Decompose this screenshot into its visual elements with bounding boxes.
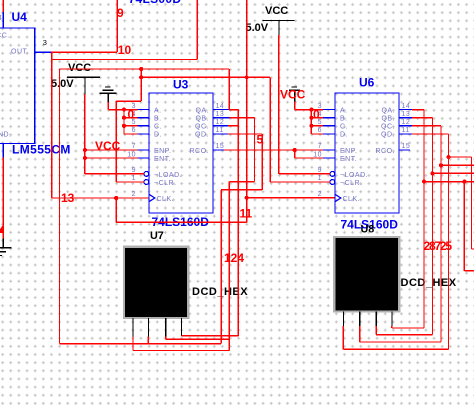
svg-text:~CLR.: ~CLR. xyxy=(154,180,177,187)
wire horizontal y=173.9 x 278.9-330 xyxy=(279,173,330,175)
svg-text:1: 1 xyxy=(318,175,322,182)
svg-text:OUT.: OUT. xyxy=(11,49,29,56)
wire horizontal y=59.5 x 51.6-197.2 xyxy=(52,59,198,61)
junction dot (84.9,158) xyxy=(83,156,87,160)
wire vertical x=294.7 y 101.7-109.6 xyxy=(294,102,296,110)
pin stub xyxy=(323,133,335,135)
svg-text:ENT.: ENT. xyxy=(154,156,171,163)
svg-text:7: 7 xyxy=(318,143,322,150)
black lead xyxy=(67,76,100,78)
svg-text:~LOAD.: ~LOAD. xyxy=(154,172,182,179)
wire vertical x=197.2 y 0-59.5 xyxy=(196,0,198,60)
wire horizontal y=222.4 x 116.2-246.7 xyxy=(116,221,247,223)
black lead xyxy=(375,312,377,327)
junction dot (311.4,117.7) xyxy=(309,116,313,120)
junction dot (311.4,125.8) xyxy=(309,124,313,128)
wire horizontal y=198 x 51.6-148.5 xyxy=(52,197,149,199)
pin stub xyxy=(323,109,335,111)
wire vertical x=262.2 y 134-189.9 xyxy=(261,134,263,190)
black lead xyxy=(263,20,295,22)
wire horizontal y=270.8 x 464.4-474 xyxy=(464,270,474,272)
wire net to U3 ~CLR xyxy=(116,69,144,182)
display U7 DCD_HEX xyxy=(124,230,248,318)
black lead xyxy=(289,89,300,91)
junction dot (464.4,181.6) xyxy=(462,180,466,184)
svg-text:2: 2 xyxy=(132,191,136,198)
U6 ~LOAD pin circle xyxy=(330,172,335,177)
pin stub xyxy=(138,149,150,151)
net number labels (red) xyxy=(61,6,452,265)
black lead xyxy=(391,312,393,327)
wire horizontal y=181.6 x 424-474 xyxy=(424,181,474,183)
U3 ~CLR pin circle xyxy=(144,180,149,185)
U8 display pins xyxy=(343,312,392,327)
black lead xyxy=(84,77,86,94)
svg-text:12: 12 xyxy=(402,119,411,126)
U4 pin 4 top stub xyxy=(0,0,3,28)
junction dot (311.4,109.6) xyxy=(309,108,313,112)
svg-text:13: 13 xyxy=(61,191,75,205)
svg-text:U8: U8 xyxy=(361,223,375,235)
power VCC 5.0V symbol (top middle) xyxy=(246,5,295,35)
U7 display pins xyxy=(133,318,182,337)
svg-text:9: 9 xyxy=(318,167,322,174)
wire horizontal y=343.7 x 59.5-221.2 xyxy=(60,343,222,345)
black lead xyxy=(278,21,280,36)
U3 pin names xyxy=(154,107,209,203)
U4 pin 3 OUT stub xyxy=(35,38,52,52)
pin stub xyxy=(138,133,150,135)
svg-text:ENT.: ENT. xyxy=(340,156,357,163)
wire horizontal y=125.8 x 311.4-323.2 xyxy=(311,125,323,127)
black lead xyxy=(100,92,117,94)
wire vertical x=114.4 y 0-51.5 xyxy=(116,0,118,52)
svg-text:11: 11 xyxy=(216,127,224,134)
svg-text:7: 7 xyxy=(132,143,136,150)
ground symbol (inverted, above U3) xyxy=(100,87,117,102)
wire horizontal y=109.6 x 229.1-238.3 xyxy=(229,109,238,111)
junction dot (124,109.6) xyxy=(122,108,126,112)
svg-text:VCC: VCC xyxy=(68,62,91,74)
svg-text:D.: D. xyxy=(340,132,348,139)
wire horizontal y=173.4 x 432.5-474 xyxy=(433,172,474,174)
wire net 13: U4 OUT across and down xyxy=(52,0,335,222)
wire horizontal y=101.2 x 116.2-141.2 xyxy=(116,100,141,102)
svg-text:U4: U4 xyxy=(12,10,28,24)
U6 left pin stubs xyxy=(323,110,335,158)
svg-text:A.: A. xyxy=(154,107,162,114)
svg-text:124: 124 xyxy=(224,251,244,265)
wire horizontal y=117.7 x 124-137.5 xyxy=(124,117,138,119)
svg-text:15: 15 xyxy=(216,143,225,150)
wire vertical x=229.1 y 69-109.6 xyxy=(228,69,230,110)
wire horizontal y=158 x 84.9-137.5 xyxy=(85,157,138,159)
svg-text:U6: U6 xyxy=(359,76,375,90)
wire vertical x=221.2 y 189.9-343.7 xyxy=(220,190,222,344)
svg-text:14: 14 xyxy=(402,103,411,110)
U6 right pin stubs xyxy=(399,110,412,150)
junction dot (246.7,197.7) xyxy=(245,196,249,200)
junction dot (141.2,69) xyxy=(139,67,143,71)
pin stub xyxy=(323,157,335,159)
svg-text:D.: D. xyxy=(154,132,162,139)
svg-text:ENP.: ENP. xyxy=(154,148,171,155)
pin stub xyxy=(323,125,335,127)
wire vertical x=359.6 y 326-342 xyxy=(359,326,361,342)
wire vertical x=59.5 y 69-343.7 xyxy=(59,69,61,344)
svg-text:5: 5 xyxy=(257,133,264,147)
svg-text:QB.: QB. xyxy=(195,116,209,123)
pin stub xyxy=(399,133,412,135)
wire vertical x=229.4 y 181.7-350.5 xyxy=(228,182,230,351)
wire vertical x=270.2 y 77.3-182 xyxy=(269,77,271,182)
svg-text:RCO.: RCO. xyxy=(376,148,396,155)
black lead xyxy=(103,89,114,91)
wire vertical x=141.2 y 69-101.2 xyxy=(140,69,142,101)
svg-text:ENP.: ENP. xyxy=(340,148,357,155)
wire ground net to U3 A B C D xyxy=(108,102,137,134)
pin stub xyxy=(399,109,412,111)
svg-text:10: 10 xyxy=(118,43,132,57)
svg-text:CLK.: CLK. xyxy=(157,196,175,203)
wire horizontal y=165.3 x 441-474 xyxy=(441,164,474,166)
svg-text:15: 15 xyxy=(402,143,411,150)
pin stub xyxy=(399,125,412,127)
svg-text:10: 10 xyxy=(313,151,322,158)
junction dot (424,181.6) xyxy=(422,180,426,184)
wire horizontal y=134 x 228-262.2 xyxy=(228,133,262,135)
wire horizontal y=134 x 311.4-323.2 xyxy=(311,133,323,135)
svg-text:28725: 28725 xyxy=(424,239,453,253)
wire horizontal y=117.7 x 412-432.5 xyxy=(412,117,433,119)
wire net RCO U3 to U6 ENP ENT xyxy=(224,150,323,158)
U6 pin numbers xyxy=(313,103,410,198)
display U8 DCD_HEX xyxy=(334,223,456,311)
wire VCC label net to U6 A B C D xyxy=(295,102,324,134)
wire horizontal y=173.9 x 84.9-144 xyxy=(85,173,144,175)
timer U4 LM555CM box (partially off-canvas) xyxy=(0,10,71,157)
wire horizontal y=335.8 x 181.5-238.3 xyxy=(182,335,239,337)
svg-text:QC.: QC. xyxy=(195,124,209,131)
wire horizontal y=150 x 84.9-137.5 xyxy=(85,149,138,151)
wire horizontal y=157 x 448.5-471.5 xyxy=(449,156,472,158)
wire horizontal y=77.3 x 141.2-270.2 xyxy=(141,76,270,78)
svg-text:U3: U3 xyxy=(173,78,189,92)
svg-text:VCC: VCC xyxy=(265,5,288,17)
wire vertical x=343.4 y 326-349.3 xyxy=(342,326,344,349)
wire vertical x=254.5 y 117.7-181.7 xyxy=(254,118,256,182)
black lead xyxy=(147,318,149,337)
wire vertical x=165.8 y 336.6-339.4 xyxy=(165,337,167,340)
power VCC 5.0V symbol (left, near U4) xyxy=(51,62,100,94)
pin stub xyxy=(323,149,335,151)
wire vertical x=116.2 y 198-222.4 xyxy=(115,198,117,222)
wire vertical x=116.2 y 101.2-182 xyxy=(115,101,117,182)
wire net QA U3 loop xyxy=(60,69,331,344)
junction dot (448.5,157) xyxy=(446,155,450,159)
wire vertical x=391.9 y 326-328 xyxy=(391,326,393,328)
svg-text:9: 9 xyxy=(117,6,124,20)
svg-text:QA.: QA. xyxy=(381,107,395,114)
wire horizontal y=328 x 391.9-424 xyxy=(392,327,424,329)
svg-text:1: 1 xyxy=(132,175,136,182)
black lead xyxy=(0,254,2,256)
svg-text:B.: B. xyxy=(340,116,348,123)
wire vertical x=2.6 y 0-12 xyxy=(2,0,4,12)
pin stub xyxy=(2,12,4,28)
wire vertical x=246.7 y 0-222.4 xyxy=(246,0,248,222)
pin stub xyxy=(213,109,230,111)
svg-text:VCC.: VCC. xyxy=(0,33,10,40)
wire horizontal y=69 x 59.5-229.1 xyxy=(60,68,230,70)
svg-text:12: 12 xyxy=(216,119,225,126)
pin stub xyxy=(138,117,150,119)
wire horizontal y=189.9 x 221.2-262.2 xyxy=(221,189,262,191)
wire horizontal y=182 x 116.2-144 xyxy=(116,181,144,183)
wire vertical x=148.4 y 336.6-343.7 xyxy=(147,337,149,344)
svg-text:LM555CM: LM555CM xyxy=(12,143,71,157)
wire horizontal y=134 x 412-448.5 xyxy=(412,133,449,135)
svg-text:5.0V: 5.0V xyxy=(246,22,269,34)
wire horizontal y=125.8 x 228-238.3 xyxy=(228,125,238,127)
svg-text:GND.: GND. xyxy=(0,132,12,139)
U3 CLK pin triangle xyxy=(149,194,155,201)
svg-text:QD.: QD. xyxy=(195,132,209,139)
wire horizontal y=339.4 x 165.8-229.4 xyxy=(166,338,230,340)
pin stub xyxy=(213,117,230,119)
wire vertical x=294.7 y 150-158 xyxy=(294,150,296,158)
wire horizontal y=109.6 x 294.7-323.2 xyxy=(295,109,324,111)
junction dot (116.2,198) xyxy=(114,196,118,200)
U4 GND wire xyxy=(0,144,4,248)
svg-text:CLK.: CLK. xyxy=(343,196,361,203)
wire horizontal y=334.6 x 376.1-432.5 xyxy=(376,334,432,336)
junction dot (441,165.3) xyxy=(439,163,443,167)
wire vertical x=124 y 109.6-134 xyxy=(123,110,125,134)
pin stub xyxy=(138,109,150,111)
pin stub xyxy=(35,51,52,53)
svg-text:QC.: QC. xyxy=(381,124,395,131)
svg-text:RCO.: RCO. xyxy=(190,148,210,155)
U3 right pin stubs xyxy=(213,110,230,150)
U3 pin numbers xyxy=(127,103,224,198)
ground symbol (bottom left) xyxy=(0,248,12,256)
svg-text:DCD_HEX: DCD_HEX xyxy=(192,286,248,298)
wire horizontal y=125.8 x 124-137.5 xyxy=(124,125,138,127)
pin stub xyxy=(399,117,412,119)
wire horizontal y=117.7 x 311.4-323.2 xyxy=(311,117,323,119)
pin stub xyxy=(399,149,410,151)
wire horizontal y=134 x 124-137.5 xyxy=(124,133,138,135)
svg-text:74LS00D: 74LS00D xyxy=(129,0,182,6)
wire net QB U6 to U8 pin3 and right xyxy=(376,118,474,335)
svg-text:A.: A. xyxy=(340,107,348,114)
U6 pin names xyxy=(340,107,395,203)
wire vertical x=376.1 y 326-334.6 xyxy=(375,326,377,335)
black lead xyxy=(0,247,12,249)
svg-text:3: 3 xyxy=(43,38,47,47)
counter U3 74LS160D box xyxy=(149,78,213,230)
wire horizontal y=51.5 x 51.6-114.4 xyxy=(52,51,118,53)
svg-text:13: 13 xyxy=(216,111,225,118)
ground symbol (inverted, above U6) xyxy=(289,87,300,102)
wire horizontal y=109.6 x 108.3-137.5 xyxy=(108,109,137,111)
svg-text:11: 11 xyxy=(240,207,253,221)
junction dot (246.7,77.3) xyxy=(245,76,249,80)
black lead xyxy=(165,318,167,337)
wire net QA U6 to U8 pin4 and right xyxy=(392,110,474,328)
wire vertical x=108.3 y 102-109.6 xyxy=(107,102,109,110)
wire net QC U6 to U8 pin2 and right xyxy=(360,126,474,342)
junction dot (432.5,173.4) xyxy=(430,171,434,175)
wire horizontal y=181.7 x 229.4-254.5 xyxy=(229,181,254,183)
wire horizontal y=249 x 471.5-474 xyxy=(472,248,474,250)
svg-text:10: 10 xyxy=(127,151,136,158)
junction dot (124,125.8) xyxy=(122,124,126,128)
black lead xyxy=(132,318,134,337)
pin stub xyxy=(213,125,228,127)
pin stub xyxy=(323,117,335,119)
wire horizontal y=117.7 x 229.5-254.5 xyxy=(230,117,255,119)
wire horizontal y=182 x 270.2-330 xyxy=(270,181,330,183)
wire horizontal y=109.6 x 412-424 xyxy=(412,109,424,111)
svg-text:4: 4 xyxy=(0,15,2,22)
black lead xyxy=(107,93,109,102)
wire vertical x=464.4 y 181.6-270.8 xyxy=(463,182,465,271)
svg-text:B.: B. xyxy=(154,116,162,123)
svg-text:13: 13 xyxy=(402,111,411,118)
U3 left pin stubs xyxy=(138,110,150,158)
wire VCC top to U6 ~LOAD xyxy=(279,35,330,174)
black lead xyxy=(105,86,111,88)
wire vertical x=441 y 125.8-342 xyxy=(440,126,442,342)
U3 ~LOAD pin circle xyxy=(144,172,149,177)
svg-text:0: 0 xyxy=(128,108,135,122)
svg-text:QD.: QD. xyxy=(381,132,395,139)
U6 CLK pin triangle xyxy=(335,194,341,201)
svg-text:6: 6 xyxy=(318,127,322,134)
wire net QC U3 to U7 pin4 xyxy=(182,110,239,336)
pin stub xyxy=(138,125,150,127)
svg-text:C.: C. xyxy=(154,124,162,131)
junction dot (294.7,150) xyxy=(293,148,297,152)
counter U6 74LS160D box xyxy=(335,76,399,232)
wire vertical x=3.3 y 143.6-238.6 xyxy=(2,144,4,158)
black lead xyxy=(292,86,298,88)
black lead xyxy=(2,239,4,248)
wire horizontal y=158 x 294.7-323.2 xyxy=(295,157,324,159)
svg-text:U7: U7 xyxy=(150,230,164,242)
wire vertical x=84.9 y 94.3-173.9 xyxy=(84,94,86,174)
wire vertical x=3.3 y 157.5-238.6 xyxy=(2,158,4,239)
svg-text:QB.: QB. xyxy=(381,116,395,123)
black lead xyxy=(294,90,296,102)
wire VCC net to U3 ENP ENT ~LOAD xyxy=(85,94,144,174)
svg-text:VCC: VCC xyxy=(280,88,306,102)
svg-text:9: 9 xyxy=(132,167,136,174)
wire horizontal y=150 x 224-323.2 xyxy=(224,149,323,151)
U6 ~CLR pin circle xyxy=(330,180,335,185)
svg-text:11: 11 xyxy=(402,127,410,134)
svg-text:14: 14 xyxy=(216,103,225,110)
svg-text:0: 0 xyxy=(313,108,320,122)
wire vertical x=432.5 y 117.7-334.6 xyxy=(432,118,434,335)
pin stub xyxy=(138,157,150,159)
svg-text:~CLR.: ~CLR. xyxy=(340,180,363,187)
black lead xyxy=(0,251,6,253)
wire horizontal y=350.5 x 133-229.4 xyxy=(133,350,229,352)
svg-text:~LOAD.: ~LOAD. xyxy=(340,172,368,179)
wire net QD U6 to U8 pin1 and right xyxy=(343,134,474,349)
wire vertical x=424 y 109.6-328 xyxy=(423,110,425,328)
black lead xyxy=(342,312,344,327)
black lead xyxy=(181,318,183,336)
wire vertical x=133 y 336.6-350.5 xyxy=(132,337,134,351)
wire horizontal y=125.8 x 412-441 xyxy=(412,125,441,127)
svg-text:5.0V: 5.0V xyxy=(51,78,74,90)
svg-text:6: 6 xyxy=(132,127,136,134)
wire vertical x=471.5 y 157-249 xyxy=(471,157,473,249)
wire vertical x=278.9 y 35-173.9 xyxy=(278,35,280,174)
black lead xyxy=(359,312,361,327)
svg-text:C.: C. xyxy=(340,124,348,131)
wire horizontal y=197.7 x 246.7-334.5 xyxy=(247,197,335,199)
wire vertical x=238.3 y 109.6-335.8 xyxy=(237,110,239,336)
junction dot (84.9,150) xyxy=(83,148,87,152)
junction dot (124,117.7) xyxy=(122,116,126,120)
wire horizontal y=349.3 x 343.4-448.5 xyxy=(343,348,448,350)
junction dot (141.2,77.3) xyxy=(139,75,143,79)
pin stub xyxy=(213,149,224,151)
wire vertical x=448.5 y 134-349.3 xyxy=(448,134,450,349)
wire vertical x=51.6 y 51.5-198 xyxy=(51,52,53,198)
pin stub xyxy=(213,133,228,135)
wire vertical x=311.4 y 109.6-134 xyxy=(310,110,312,134)
wire horizontal y=342 x 359.6-441 xyxy=(360,341,441,343)
svg-text:VCC: VCC xyxy=(95,139,121,153)
svg-text:QA.: QA. xyxy=(195,107,209,114)
wire net QB U3 to U7 xyxy=(133,110,255,351)
